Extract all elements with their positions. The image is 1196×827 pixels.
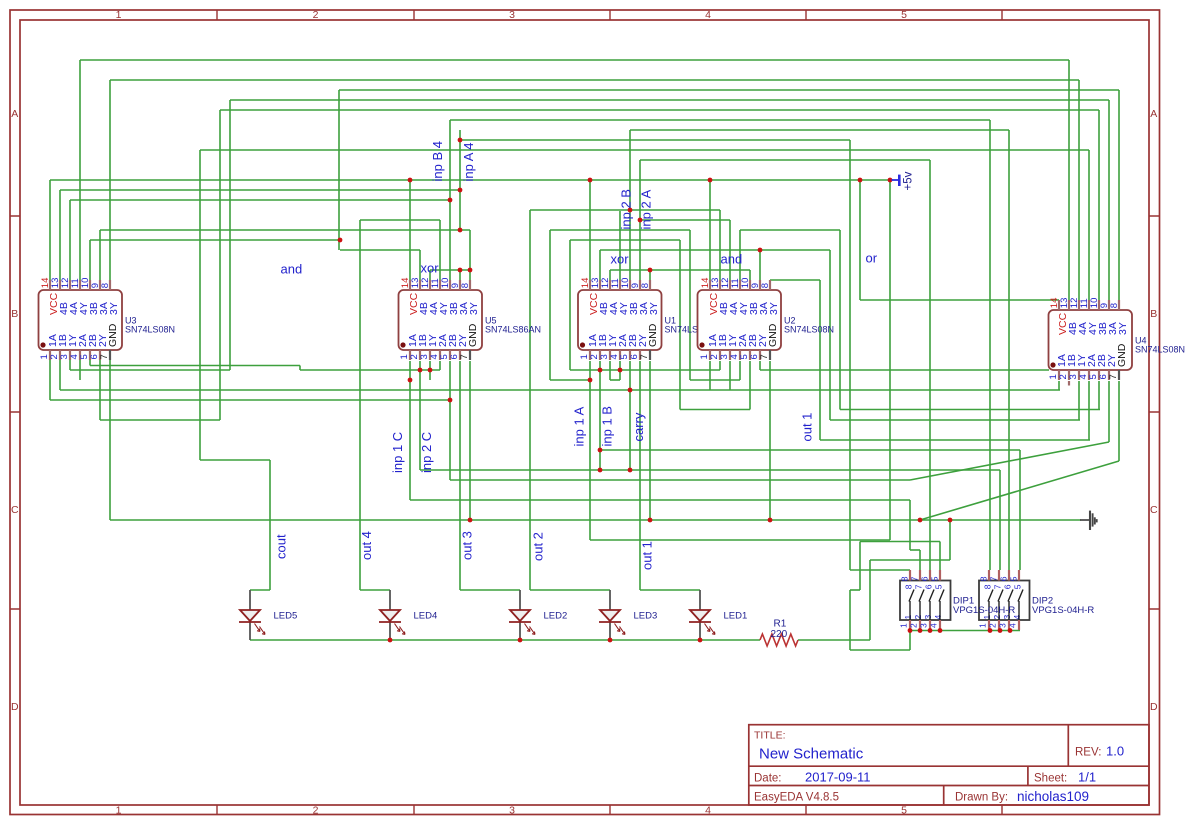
LED LED1 triangle bbox=[690, 610, 710, 621]
wire v x=1089 y=381..440 bbox=[1088, 381, 1090, 440]
U3 pin 11 (4Y) bbox=[79, 280, 81, 290]
U2 pin 5 (2B) bbox=[749, 350, 751, 360]
wire v x=750 y=361..409.5 bbox=[749, 361, 751, 410]
wire h y=250 x=340..420 bbox=[340, 249, 420, 251]
svg-text:3: 3 bbox=[998, 623, 1008, 628]
wire h y=409.5 x=840..1100 bbox=[840, 409, 1100, 411]
junction (760,250) bbox=[758, 248, 763, 253]
wire h y=140 x=460..850 bbox=[460, 139, 850, 141]
wire v x=630 y=130..280 bbox=[629, 130, 631, 280]
wire v x=80 y=360..380 bbox=[79, 360, 81, 380]
svg-text:8: 8 bbox=[899, 576, 909, 581]
junction (610,640) bbox=[608, 638, 613, 643]
svg-text:8: 8 bbox=[760, 283, 771, 288]
svg-text:inp 2 B: inp 2 B bbox=[619, 189, 634, 229]
U2 pin 13 (4B) bbox=[719, 280, 721, 290]
U4 pin 2 unconnected stub bbox=[1068, 381, 1070, 386]
U5 pin 8 (3Y) bbox=[469, 280, 471, 290]
U3 pin 13 (4B) bbox=[59, 280, 61, 290]
wire v x=940 y=541.5..570 bbox=[939, 542, 941, 571]
U2 pin 10 (3B) bbox=[749, 280, 751, 290]
svg-text:Sheet:: Sheet: bbox=[1034, 773, 1067, 785]
wire h y=570 x=850..910 bbox=[850, 569, 910, 571]
U5 pin 9 (3A) bbox=[459, 280, 461, 290]
wire h y=270 x=430..470 bbox=[430, 269, 470, 271]
junction (460,230) bbox=[458, 228, 463, 233]
wire h y=470 x=420..1000 bbox=[420, 469, 1000, 471]
wire v x=420 y=361..470 bbox=[419, 361, 421, 470]
svg-text:8: 8 bbox=[978, 576, 988, 581]
svg-text:2: 2 bbox=[988, 623, 998, 628]
svg-text:GND: GND bbox=[1116, 343, 1128, 367]
LED LED5 emission arrows bbox=[255, 624, 266, 635]
wire h y=630.5 x=910..1020 bbox=[910, 630, 1020, 632]
svg-text:out 3: out 3 bbox=[459, 531, 474, 560]
wire v x=70 y=360..370 bbox=[69, 360, 71, 370]
wire h y=365.5 x=90..300 bbox=[90, 365, 300, 367]
wire v x=220 y=110..420 bbox=[219, 110, 221, 420]
wire h y=390 x=60..1060 bbox=[60, 389, 1060, 391]
svg-text:B: B bbox=[1150, 308, 1157, 320]
wire h y=420 x=830..1080 bbox=[830, 419, 1080, 421]
wire h y=590 x=360..390 bbox=[360, 589, 390, 591]
LED LED3 triangle bbox=[600, 610, 620, 621]
junction (590,380) bbox=[588, 378, 593, 383]
U4 pin 14 (VCC) bbox=[1058, 300, 1060, 310]
U1 pin 6 (2Y) bbox=[639, 350, 641, 360]
svg-text:3Y: 3Y bbox=[768, 302, 780, 315]
junction (630,470) bbox=[628, 468, 633, 473]
LED LED3 lead bbox=[609, 590, 611, 610]
DIP1 switch lever 3 bbox=[929, 601, 931, 620]
wire h y=450 x=600..1020 bbox=[600, 449, 1020, 451]
svg-text:LED4: LED4 bbox=[414, 611, 438, 622]
svg-text:2: 2 bbox=[313, 9, 319, 21]
DIP switch DIP2 body bbox=[979, 581, 1030, 621]
svg-text:2: 2 bbox=[313, 805, 319, 817]
DIP2 switch lever 1 bbox=[988, 601, 990, 620]
U5 pin 6 (2Y) bbox=[459, 350, 461, 360]
U1 pin 11 (4Y) bbox=[619, 280, 621, 290]
U1 pin 9 (3A) bbox=[639, 280, 641, 290]
U3 pin 6 (2Y) bbox=[99, 350, 101, 360]
wire v x=460 y=361..590 bbox=[459, 361, 461, 590]
IC U1 SN74LS86AN body bbox=[578, 290, 662, 350]
svg-text:cout: cout bbox=[274, 534, 289, 559]
wire v x=840 y=230..409.5 bbox=[839, 230, 841, 410]
svg-text:6: 6 bbox=[919, 576, 929, 581]
wire v x=1089 y=150..300 bbox=[1088, 150, 1090, 300]
wire v x=610 y=270..280 bbox=[609, 270, 611, 280]
U2 pin 7 (GND) bbox=[769, 350, 771, 360]
junction (700,640) bbox=[698, 638, 703, 643]
U2 pin 8 (3Y) bbox=[769, 280, 771, 290]
junction (470,270) bbox=[468, 268, 473, 273]
wire h y=150 x=200..1089 bbox=[200, 149, 1089, 151]
junction (630,210) bbox=[628, 208, 633, 213]
wire h y=250 x=600..830 bbox=[600, 249, 830, 251]
IC U5 pin-1 marker bbox=[400, 342, 405, 347]
U4 pin 8 (3Y) bbox=[1118, 300, 1120, 310]
U4 pin 3 (1Y) bbox=[1078, 370, 1080, 380]
LED LED4 triangle bbox=[380, 610, 400, 621]
wire v x=430 y=270..280 bbox=[429, 270, 431, 280]
U4 pin 5 (2B) bbox=[1098, 370, 1100, 380]
svg-text:2: 2 bbox=[913, 615, 923, 620]
wire v x=910 y=630.5..650 bbox=[909, 631, 911, 651]
svg-text:C: C bbox=[1150, 504, 1158, 516]
junction (650,520) bbox=[648, 518, 653, 523]
DIP2 pin 3 bottom bbox=[1008, 620, 1010, 630]
U1 pin 1 (1A) bbox=[589, 350, 591, 360]
wire v x=450 y=120..280 bbox=[449, 120, 451, 280]
svg-text:4: 4 bbox=[705, 805, 711, 817]
LED LED3 cathode bar bbox=[599, 621, 621, 623]
svg-text:8: 8 bbox=[904, 584, 914, 589]
svg-text:8: 8 bbox=[460, 283, 471, 288]
wire v x=620 y=361..380 bbox=[619, 361, 621, 380]
junction (860,180) bbox=[858, 178, 863, 183]
wire v x=830 y=250..420 bbox=[829, 250, 831, 420]
wire v x=1099 y=381..409.5 bbox=[1098, 381, 1100, 410]
wire v x=760 y=361..370 bbox=[759, 361, 761, 370]
wire h y=640 x=798..870 bbox=[798, 639, 870, 641]
wire v x=1099 y=110..300 bbox=[1098, 110, 1100, 300]
IC U2 SN74LS08N body bbox=[698, 290, 782, 350]
U5 pin 2 (1B) bbox=[419, 350, 421, 360]
wire v x=740 y=230..280 bbox=[739, 230, 741, 280]
U3 pin 8 (3Y) bbox=[109, 280, 111, 290]
svg-text:inp A 4: inp A 4 bbox=[461, 142, 476, 181]
svg-text:REV:: REV: bbox=[1075, 747, 1101, 759]
wire v x=60 y=190..280 bbox=[59, 190, 61, 280]
svg-text:6: 6 bbox=[998, 576, 1008, 581]
wire v x=420 y=250..280 bbox=[419, 250, 421, 280]
wire v x=870 y=560..640 bbox=[869, 560, 871, 640]
wire v x=300 y=365.5..370 bbox=[299, 366, 301, 371]
svg-text:+5v: +5v bbox=[902, 171, 914, 190]
wire v x=630 y=361..471 bbox=[629, 361, 631, 471]
wire h y=380 x=550..590 bbox=[550, 379, 590, 381]
junction (410,380) bbox=[408, 378, 413, 383]
svg-text:and: and bbox=[721, 252, 743, 267]
svg-text:out 1: out 1 bbox=[639, 541, 654, 570]
wire h y=230 x=740..840 bbox=[740, 229, 840, 231]
wire h y=590 x=850..860 bbox=[850, 589, 860, 591]
svg-text:D: D bbox=[1150, 701, 1158, 713]
wire v x=430 y=361..380 bbox=[429, 361, 431, 380]
wire diagonal U4 pin6 to y480 rail bbox=[910, 442, 1109, 480]
svg-text:LED2: LED2 bbox=[544, 611, 568, 622]
U1 pin 4 (2A) bbox=[619, 350, 621, 360]
LED LED2 cathode bar bbox=[509, 621, 531, 623]
wire v x=60 y=360..390 bbox=[59, 360, 61, 390]
wire v x=850 y=140..570 bbox=[849, 140, 851, 570]
U2 pin 6 (2Y) bbox=[759, 350, 761, 360]
wire h y=190 x=60..460 bbox=[60, 189, 460, 191]
wire v x=200 y=150..460 bbox=[199, 150, 201, 460]
svg-text:and: and bbox=[281, 262, 303, 277]
wire h y=520 x=110..1081 bbox=[110, 519, 1081, 521]
resistor R1 220 zigzag bbox=[760, 634, 798, 646]
wire v x=50 y=180..280 bbox=[49, 180, 51, 280]
wire v x=650 y=361..520 bbox=[649, 361, 651, 520]
DIP2 pin 8 top bbox=[988, 570, 990, 581]
svg-text:Date:: Date: bbox=[754, 773, 782, 785]
IC U4 pin-1 marker bbox=[1050, 362, 1055, 367]
U3 pin 14 (VCC) bbox=[49, 280, 51, 290]
IC U3 pin-1 marker bbox=[40, 342, 45, 347]
U5 pin 10 (3B) bbox=[449, 280, 451, 290]
svg-text:4: 4 bbox=[1008, 623, 1018, 628]
wire h y=480 x=450..910 bbox=[450, 479, 910, 481]
LED LED1 cathode bar bbox=[689, 621, 711, 623]
wire v x=460 y=270..280 bbox=[459, 270, 461, 280]
svg-text:3Y: 3Y bbox=[108, 302, 120, 315]
junction (940,630.5) bbox=[938, 628, 943, 633]
svg-text:3: 3 bbox=[509, 805, 515, 817]
wire v x=990 y=120..570 bbox=[989, 120, 991, 570]
wire h y=230 x=100..470 bbox=[100, 229, 470, 231]
DIP1 pin 5 top bbox=[939, 570, 941, 581]
U5 pin 7 (GND) bbox=[469, 350, 471, 360]
DIP1 pin 8 top bbox=[909, 570, 911, 581]
svg-text:LED3: LED3 bbox=[634, 611, 658, 622]
wire v x=860 y=541.5..590 bbox=[859, 542, 861, 591]
svg-text:C: C bbox=[11, 504, 19, 516]
junction (600,470) bbox=[598, 468, 603, 473]
wire v x=80 y=60..280 bbox=[79, 60, 81, 280]
wire h y=240 x=570..680 bbox=[570, 239, 680, 241]
svg-text:5: 5 bbox=[929, 576, 939, 581]
DIP1 pin 6 top bbox=[929, 570, 931, 581]
U2 pin 3 (1Y) bbox=[729, 350, 731, 360]
wire h y=180 x=50..893 bbox=[50, 179, 893, 181]
wire h y=220 x=640..730 bbox=[640, 219, 730, 221]
wire v x=930 y=160..570 bbox=[929, 160, 931, 570]
svg-text:2: 2 bbox=[909, 623, 919, 628]
junction (340,240) bbox=[338, 238, 343, 243]
svg-text:VPG1S-04H-R: VPG1S-04H-R bbox=[953, 605, 1015, 616]
wire v x=339 y=90..250 bbox=[338, 90, 340, 250]
U3 pin 5 (2B) bbox=[89, 350, 91, 360]
U4 pin 9 (3A) bbox=[1108, 300, 1110, 310]
svg-text:3Y: 3Y bbox=[648, 302, 660, 315]
U3 pin 9 (3A) bbox=[99, 280, 101, 290]
wire v x=470 y=230..280 bbox=[469, 230, 471, 280]
wire h y=300 x=860..1059 bbox=[860, 299, 1059, 301]
DIP2 switch lever 4 bbox=[1018, 601, 1020, 620]
wire v x=1059 y=381..390 bbox=[1058, 381, 1060, 390]
wire h y=120 x=450..990 bbox=[450, 119, 990, 121]
svg-text:SN74LS86AN: SN74LS86AN bbox=[485, 325, 541, 335]
svg-text:nicholas109: nicholas109 bbox=[1017, 789, 1089, 804]
wire h y=370 x=760..1049 bbox=[760, 369, 1049, 371]
U1 pin 8 (3Y) bbox=[649, 280, 651, 290]
U4 pin 11 (4Y) bbox=[1088, 300, 1090, 310]
junction (950,520) bbox=[948, 518, 953, 523]
U1 pin 2 (1B) bbox=[599, 350, 601, 360]
svg-text:5: 5 bbox=[901, 805, 907, 817]
svg-text:xor: xor bbox=[421, 261, 440, 276]
wire v x=690 y=230..380 bbox=[689, 230, 691, 380]
svg-text:A: A bbox=[11, 108, 18, 120]
wire h y=590 x=530..610 bbox=[530, 589, 610, 591]
wire v x=680 y=240..409.5 bbox=[679, 240, 681, 410]
wire v x=470 y=361..520 bbox=[469, 361, 471, 520]
U2 pin 1 (1A) bbox=[709, 350, 711, 360]
wire h y=420 x=100..220 bbox=[100, 419, 220, 421]
U4 pin 1 (1A) bbox=[1058, 370, 1060, 380]
svg-text:SN74LS08N: SN74LS08N bbox=[125, 325, 175, 335]
wire v x=710 y=180..280 bbox=[709, 180, 711, 280]
svg-text:New Schematic: New Schematic bbox=[759, 746, 864, 763]
wire v x=610 y=361..380 bbox=[609, 361, 611, 380]
svg-text:7: 7 bbox=[993, 584, 1003, 589]
wire h y=280 x=770..820 bbox=[770, 279, 820, 281]
svg-text:GND: GND bbox=[767, 323, 779, 347]
wire h y=60 x=80..1069 bbox=[80, 59, 1069, 61]
U1 pin 13 (4B) bbox=[599, 280, 601, 290]
wire h y=541.5 x=860..940 bbox=[860, 541, 940, 543]
svg-text:TITLE:: TITLE: bbox=[754, 730, 786, 742]
DIP1 switch lever 1 bbox=[909, 601, 911, 620]
svg-text:1: 1 bbox=[116, 805, 122, 817]
wire v x=950 y=520..560 bbox=[949, 520, 951, 560]
wire v x=860 y=180..300 bbox=[859, 180, 861, 300]
wire v x=730 y=361..390 bbox=[729, 361, 731, 390]
U3 pin 2 (1B) bbox=[59, 350, 61, 360]
junction (710,180) bbox=[708, 178, 713, 183]
junction (470,520) bbox=[468, 518, 473, 523]
wire v x=770 y=361..520 bbox=[769, 361, 771, 520]
U1 pin 10 (3B) bbox=[629, 280, 631, 290]
wire h y=650 x=850..910 bbox=[850, 649, 910, 651]
U1 pin 14 (VCC) bbox=[589, 280, 591, 290]
wire h y=90 x=339..1119 bbox=[339, 89, 1119, 91]
wire h y=100 x=230..1109 bbox=[230, 99, 1109, 101]
wire v x=1000 y=470..570 bbox=[999, 470, 1001, 570]
wire diagonal U4 pin7 to gnd rail bbox=[920, 461, 1119, 520]
U3 pin 4 (2A) bbox=[79, 350, 81, 360]
wire v x=760 y=250..280 bbox=[759, 250, 761, 280]
U5 pin 12 (4A) bbox=[429, 280, 431, 290]
wire v x=1109 y=381..442 bbox=[1108, 381, 1110, 442]
wire v x=1079 y=381..420 bbox=[1078, 381, 1080, 420]
U4 pin 4 (2A) bbox=[1088, 370, 1090, 380]
wire v x=640 y=361..590 bbox=[639, 361, 641, 590]
junction (590,180) bbox=[588, 178, 593, 183]
U4 pin 13 (4B) bbox=[1068, 300, 1070, 310]
wire h y=400 x=50..450 bbox=[50, 399, 450, 401]
wire v x=110 y=80..280 bbox=[109, 80, 111, 280]
wire h y=210 x=530..720 bbox=[530, 209, 720, 211]
wire v x=640 y=160..280 bbox=[639, 160, 641, 280]
junction (770,520) bbox=[768, 518, 773, 523]
wire v x=230 y=100..370 bbox=[229, 100, 231, 370]
junction (910,630.5) bbox=[908, 628, 913, 633]
wire v x=750 y=270..280 bbox=[749, 270, 751, 280]
wire v x=410 y=180..280 bbox=[409, 180, 411, 280]
LED LED1 lead bbox=[699, 590, 701, 610]
wire h y=160 x=640..930 bbox=[640, 159, 930, 161]
LED LED5 cathode bar bbox=[239, 621, 261, 623]
DIP2 pin 4 bottom bbox=[1018, 620, 1020, 630]
wire h y=409.5 x=680..750 bbox=[680, 409, 750, 411]
DIP1 pin 7 top bbox=[919, 570, 921, 581]
svg-text:7: 7 bbox=[1108, 374, 1119, 379]
IC U1 pin-1 marker bbox=[580, 342, 585, 347]
wire v x=90 y=240..280 bbox=[89, 240, 91, 280]
wire v x=740 y=361..380 bbox=[739, 361, 741, 380]
svg-text:carry: carry bbox=[631, 412, 646, 441]
wire v x=650 y=270..280 bbox=[649, 270, 651, 280]
wire v x=590 y=180..280 bbox=[589, 180, 591, 280]
+5v power flag bbox=[892, 175, 900, 186]
LED LED4 emission arrows bbox=[395, 624, 406, 635]
DIP1 pin 3 bottom bbox=[929, 620, 931, 630]
svg-text:7: 7 bbox=[759, 354, 770, 359]
svg-text:6: 6 bbox=[924, 584, 934, 589]
title block frame bbox=[749, 725, 1149, 805]
wire v x=850 y=590..650 bbox=[849, 590, 851, 650]
U3 pin 7 (GND) bbox=[109, 350, 111, 360]
U5 pin 1 (1A) bbox=[409, 350, 411, 360]
svg-text:8: 8 bbox=[100, 283, 111, 288]
wire h y=380 x=610..620 bbox=[610, 379, 620, 381]
IC U4 SN74LS08N body bbox=[1049, 310, 1133, 370]
wire v x=1119 y=381..461 bbox=[1118, 381, 1120, 461]
svg-text:3Y: 3Y bbox=[468, 302, 480, 315]
junction (450,400) bbox=[448, 398, 453, 403]
svg-text:4: 4 bbox=[705, 9, 711, 21]
wire v x=530 y=210..590 bbox=[529, 210, 531, 590]
DIP1 pin 4 bottom bbox=[939, 620, 941, 630]
U1 pin 12 (4A) bbox=[609, 280, 611, 290]
DIP1 pin 2 bottom bbox=[919, 620, 921, 630]
junction (410,180) bbox=[408, 178, 413, 183]
svg-text:GND: GND bbox=[647, 323, 659, 347]
svg-text:Drawn By:: Drawn By: bbox=[955, 792, 1008, 804]
junction (1010,630.5) bbox=[1008, 628, 1013, 633]
wire h y=380 x=690..740 bbox=[690, 379, 740, 381]
U3 pin 12 (4A) bbox=[69, 280, 71, 290]
wire v x=110 y=360..520 bbox=[109, 360, 111, 520]
junction (890,180) bbox=[888, 178, 893, 183]
wire v x=100 y=230..280 bbox=[99, 230, 101, 280]
svg-text:220: 220 bbox=[771, 629, 788, 640]
U4 pin 10 (3B) bbox=[1098, 300, 1100, 310]
wire h y=560 x=870..950 bbox=[870, 559, 950, 561]
svg-text:inp 1 A: inp 1 A bbox=[571, 406, 586, 446]
wire h y=130 x=630..1009 bbox=[630, 129, 1009, 131]
wire v x=90 y=360..365.5 bbox=[89, 360, 91, 366]
U2 pin 14 (VCC) bbox=[709, 280, 711, 290]
wire v x=440 y=361..370 bbox=[439, 361, 441, 370]
svg-text:5: 5 bbox=[1013, 584, 1023, 589]
U3 pin 10 (3B) bbox=[89, 280, 91, 290]
svg-text:4: 4 bbox=[929, 623, 939, 628]
svg-text:5: 5 bbox=[934, 584, 944, 589]
wire v x=620 y=211..280 bbox=[619, 211, 621, 280]
svg-text:out 4: out 4 bbox=[359, 531, 374, 560]
wire h y=640 x=250..760 bbox=[250, 639, 760, 641]
svg-text:inp 2 A: inp 2 A bbox=[639, 189, 654, 229]
DIP2 pin 7 top bbox=[998, 570, 1000, 581]
wire v x=270 y=460..590 bbox=[269, 460, 271, 590]
U4 pin 2 (1B) bbox=[1068, 370, 1070, 380]
svg-text:or: or bbox=[866, 251, 878, 266]
